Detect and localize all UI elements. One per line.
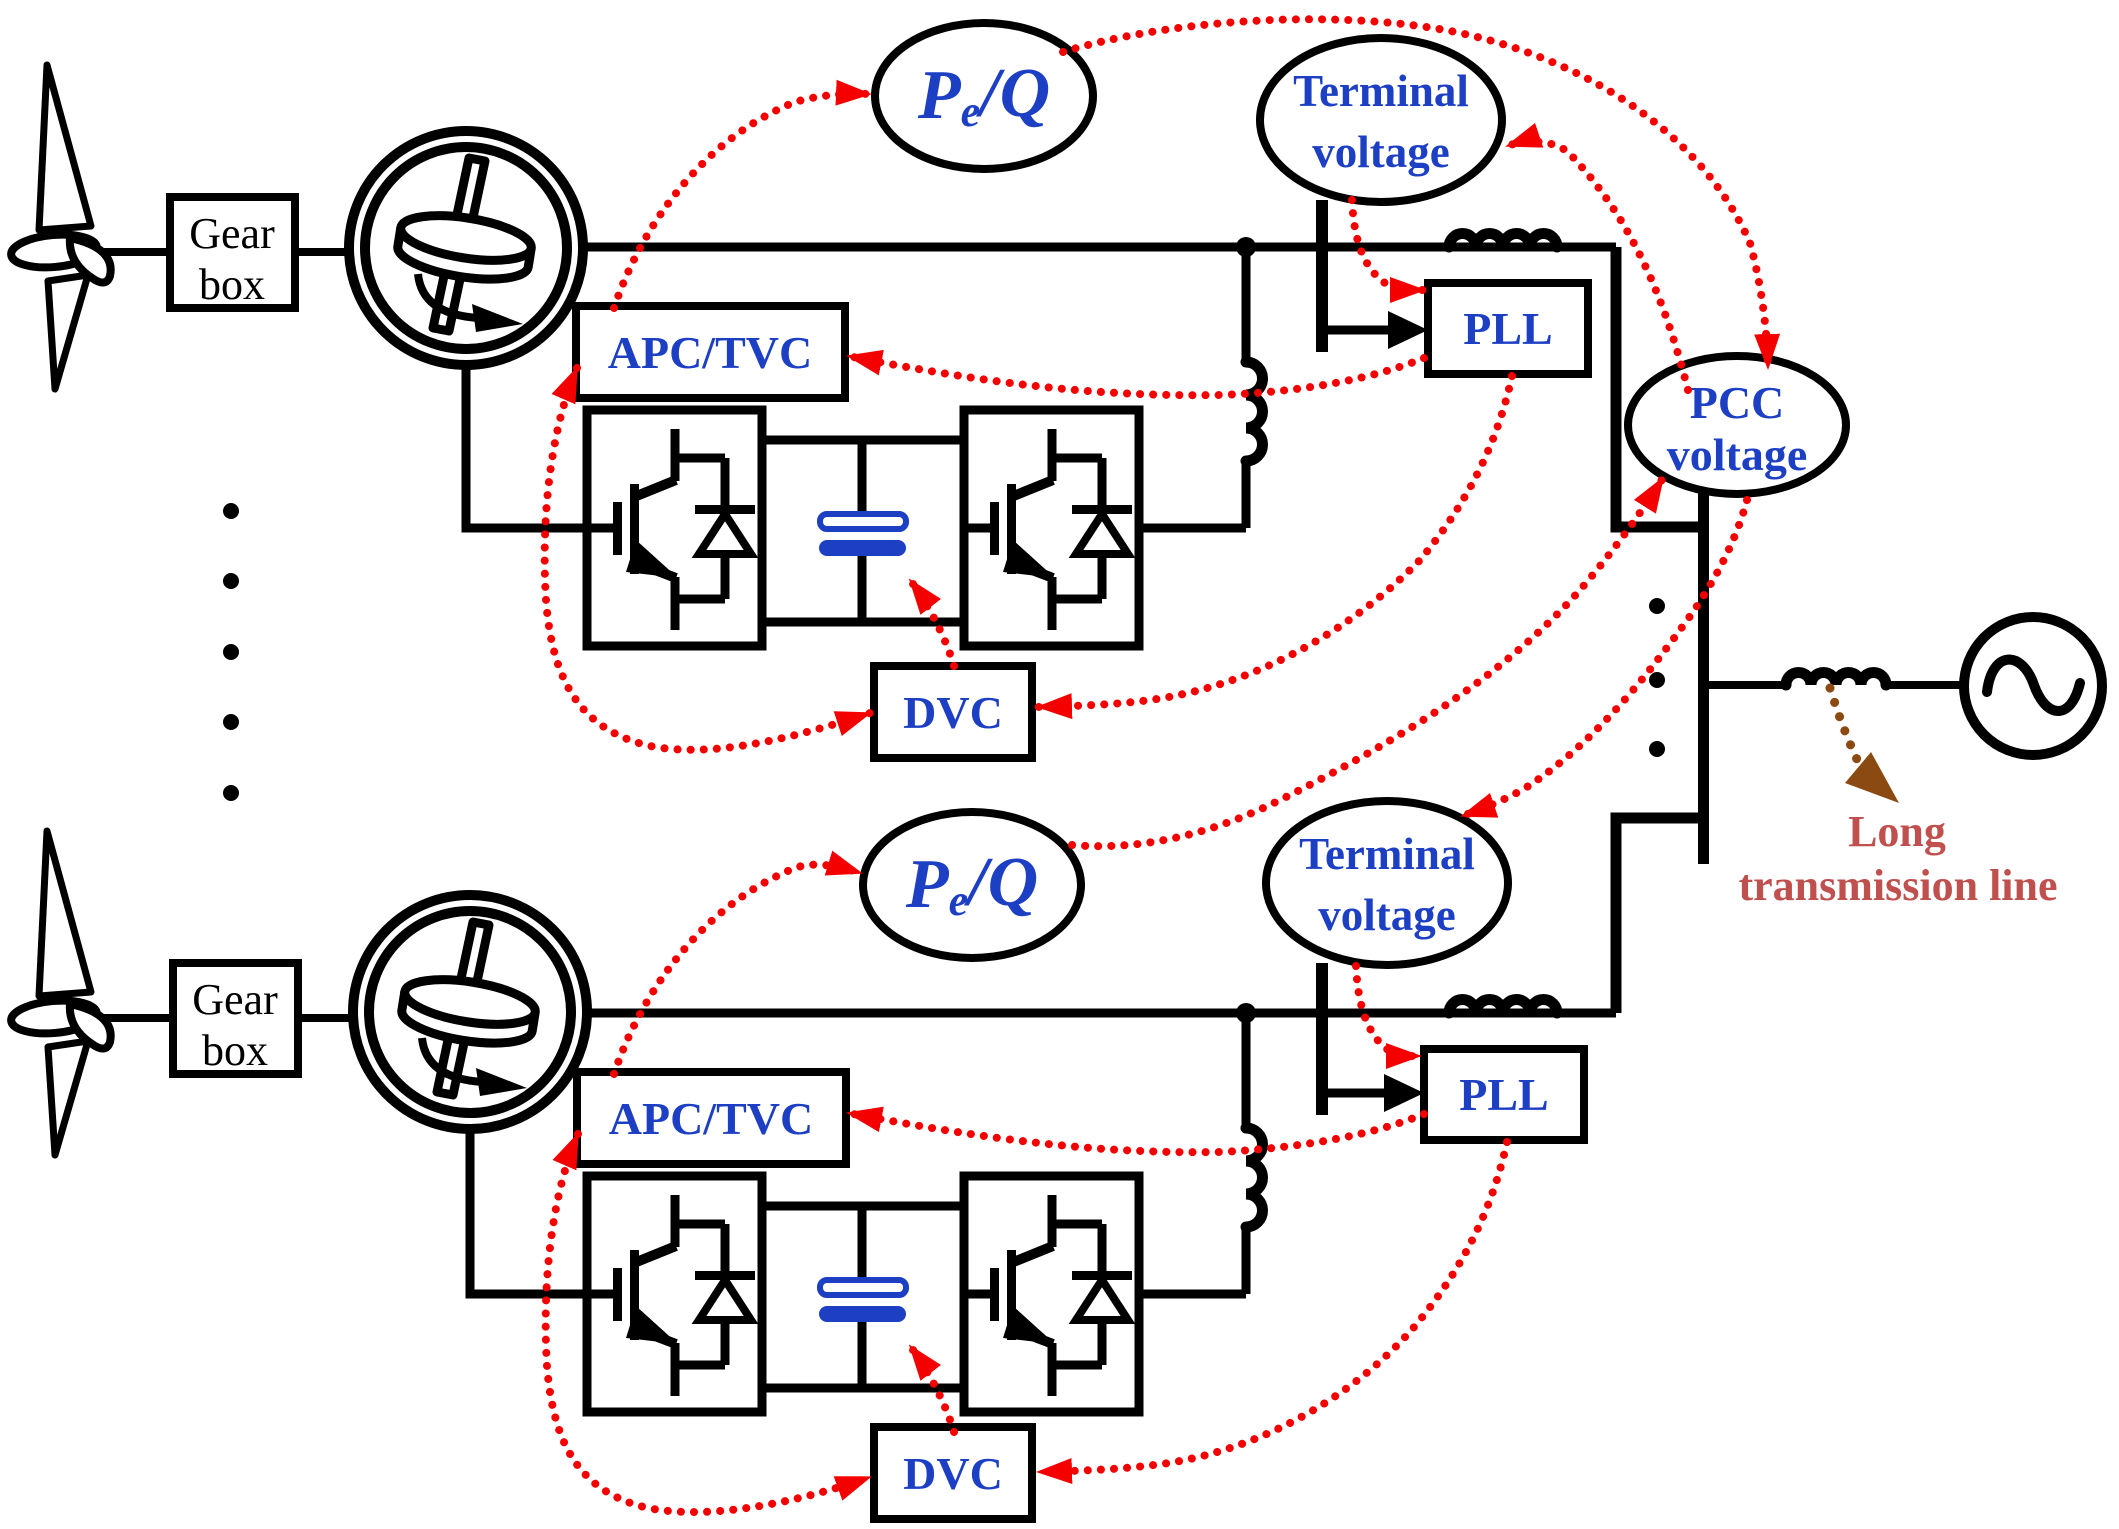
DC link top rail (bottom) [762,1202,964,1211]
generator bottom disc [399,972,539,1051]
Pe/Q ellipse (top) [875,23,1093,169]
IGBT grid-side bottom collector-diode top jog [1052,1220,1102,1229]
probe arm to PLL (top) [1322,326,1392,335]
IGBT machine-side bottom emitter lead [671,1343,680,1396]
grid voltage source [1964,617,2102,755]
svg-text:transmission line: transmission line [1738,861,2057,910]
wire turbine shaft to gear box (bottom) [88,1014,170,1022]
svg-text:DVC: DVC [903,1448,1003,1499]
APC/TVC box (top) [576,306,845,398]
diode machine-side bottom triangle [699,1280,751,1320]
diode grid-side top cathode branch [1098,458,1107,509]
DC link capacitor bottom plate (top) [819,540,906,556]
diode grid-side top cathode bar [1072,505,1132,514]
diode machine-side top cathode branch [721,458,730,509]
svg-text:Long: Long [1848,807,1946,856]
IGBT grid-side top collector-diode top jog [1052,454,1102,463]
svg-text:Gear: Gear [192,975,278,1024]
wind turbine top upper blade [39,65,91,230]
IGBT machine-side bottom emitter arrowhead [626,1306,678,1344]
IGBT grid-side top gate lead [964,524,993,533]
wire PCC bus to grid inductor [1706,681,1786,689]
signal arrow Terminal voltage to PLL (top) [1352,200,1424,290]
Terminal voltage ellipse (top) [1260,38,1502,202]
inductor Ls stator (top) [1449,234,1557,247]
converter box machine-side top [587,410,762,646]
wire grid corner to PCC bus (top) [1616,247,1698,527]
signal arrow Terminal voltage to PLL (bottom) [1356,966,1420,1056]
signal arrow DVC/APC feedback loop (top) [545,368,870,750]
wind turbine bottom upper blade [39,831,91,996]
terminal voltage probe bar (top) [1316,200,1328,352]
generator bottom outer circle [353,895,587,1129]
svg-text:Gear: Gear [189,209,275,258]
IGBT machine-side top body bar [630,484,639,574]
IGBT machine-side top emitter-diode bottom jog [675,595,725,604]
wind turbine bottom hub ring [10,997,98,1036]
signal arrow PCC voltage to Terminal voltage (bottom) [1462,500,1747,816]
wind turbine top lower blade [48,275,88,389]
DC link capacitor top plate (bottom) [820,1280,906,1295]
wire grid corner to PCC bus (bottom) [1616,818,1698,1013]
IGBT machine-side top gate lead [587,524,616,533]
IGBT grid-side bottom gate bar [990,1268,999,1321]
svg-text:DVC: DVC [903,687,1003,738]
generator top inner circle [365,147,567,349]
IGBT grid-side bottom emitter-diode bottom jog [1052,1361,1102,1370]
IGBT machine-side top emitter diagonal [634,562,676,578]
black arrow into PLL (bottom) [1384,1074,1424,1112]
diode grid-side top anode branch [1098,554,1107,599]
IGBT machine-side bottom collector diagonal [634,1246,676,1263]
IGBT grid-side top emitter lead [1048,577,1057,630]
signal arrow PLL to APC/TVC (bottom) [848,1113,1424,1152]
DC link bottom rail (top) [762,618,964,627]
diode machine-side top cathode bar [695,505,755,514]
signal arrow PLL to DVC (top) [1038,376,1512,707]
IGBT machine-side bottom emitter-diode bottom jog [675,1361,725,1370]
DC link capacitor top plate (top) [820,514,906,529]
diode grid-side bottom cathode branch [1098,1224,1107,1275]
wire grid inductor to grid source [1886,681,1966,689]
IGBT grid-side bottom emitter diagonal [1011,1328,1053,1344]
generator top outer circle [349,131,583,365]
PLL box (bottom) [1424,1049,1584,1140]
svg-text:voltage: voltage [1312,127,1449,177]
svg-text:APC/TVC: APC/TVC [609,1093,813,1144]
terminal voltage probe bar (bottom) [1316,963,1328,1115]
signal arrow DVC/APC feedback loop (bottom) [546,1134,870,1512]
rotor-side vertical wire at junction (top) [1242,247,1251,362]
DC link capacitor stub bottom (bottom) [858,1322,867,1388]
signal arrow PCC voltage to Terminal voltage (top) [1507,142,1688,390]
IGBT machine-side bottom gate bar [613,1268,622,1321]
grid-side converter output wire (bottom) [1139,1290,1246,1299]
svg-text:Pe/Q: Pe/Q [917,55,1050,136]
IGBT machine-side bottom gate lead [587,1290,616,1299]
stator wire generator to grid corner (top) [583,243,1616,252]
DC link capacitor stub top (top) [858,440,867,514]
rotor wire generator bottom to machine-side converter (top) [466,360,587,528]
IGBT grid-side top emitter-diode bottom jog [1052,595,1102,604]
wind turbine top nose blade [70,238,111,283]
signal arrow APC/TVC to Pe/Q (bottom) [614,865,861,1074]
Terminal voltage ellipse (bottom) [1266,801,1508,965]
signal arrow PLL to DVC (bottom) [1038,1142,1507,1472]
IGBT machine-side bottom emitter diagonal [634,1328,676,1344]
inductor Ls stator (bottom) [1449,1000,1557,1013]
converter box machine-side bottom [587,1176,762,1412]
svg-text:voltage: voltage [1318,890,1455,940]
inductor Lf vertical (bottom) [1246,1128,1263,1227]
IGBT grid-side bottom collector lead [1048,1195,1057,1247]
Pe/Q ellipse (bottom) [863,812,1081,958]
svg-text:voltage: voltage [1667,429,1808,480]
svg-text:PLL: PLL [1463,303,1552,354]
IGBT grid-side bottom body bar [1007,1250,1016,1340]
IGBT machine-side top emitter arrowhead [626,540,678,578]
IGBT machine-side top collector-diode top jog [675,454,725,463]
long transmission line pointer arrow [1830,688,1861,768]
APC/TVC box (bottom) [577,1072,846,1164]
DC link bottom rail (bottom) [762,1384,964,1393]
wire below vertical inductor (top) [1242,461,1251,528]
diode machine-side bottom anode branch [721,1320,730,1365]
gear box top [170,197,295,308]
svg-text:PCC: PCC [1690,377,1785,428]
svg-text:box: box [202,1026,268,1075]
diode grid-side bottom anode branch [1098,1320,1107,1365]
generator top rotor shaft [433,158,485,331]
generator top rotation arrow [418,274,478,318]
PCC voltage ellipse [1628,356,1846,494]
wire gear box to generator (bottom) [298,1014,360,1022]
svg-text:Terminal: Terminal [1293,66,1469,116]
IGBT machine-side bottom collector-diode top jog [675,1220,725,1229]
DVC box (bottom) [874,1427,1032,1519]
diode machine-side top triangle [699,514,751,554]
IGBT machine-side top gate bar [613,502,622,555]
IGBT grid-side bottom gate lead [964,1290,993,1299]
IGBT machine-side top emitter lead [671,577,680,630]
signal arrow APC/TVC to Pe/Q (top) [614,94,870,308]
grid-side converter output wire (top) [1139,524,1246,533]
wind turbine bottom lower blade [48,1041,88,1155]
black arrow into PLL (top) [1388,311,1428,349]
IGBT grid-side top body bar [1007,484,1016,574]
generator bottom inner circle [369,911,571,1113]
gear box bottom [173,963,298,1074]
DC link capacitor stub bottom (top) [858,556,867,622]
IGBT grid-side bottom emitter arrowhead [1003,1306,1055,1344]
IGBT grid-side bottom collector diagonal [1011,1246,1053,1263]
vertical ellipsis between units [223,503,239,519]
junction dot stator/rotor (top) [1236,237,1256,257]
svg-text:Terminal: Terminal [1299,829,1475,879]
IGBT machine-side bottom collector lead [671,1195,680,1247]
IGBT machine-side top collector diagonal [634,480,676,497]
IGBT grid-side top collector lead [1048,429,1057,481]
junction dot stator/rotor (bottom) [1236,1003,1256,1023]
signal arrow DVC to DC capacitor (bottom) [910,1346,954,1432]
PCC bus bar [1698,490,1709,864]
inductor Lg (long transmission line) [1786,673,1886,686]
diode machine-side bottom cathode branch [721,1224,730,1275]
stator wire generator to grid corner (bottom) [587,1009,1616,1018]
probe arm to PLL (bottom) [1322,1089,1388,1098]
rotor wire generator bottom to machine-side converter (bottom) [470,1124,587,1294]
vertical ellipsis dots left of PCC bus [1649,598,1665,614]
IGBT grid-side top gate bar [990,502,999,555]
IGBT machine-side top collector lead [671,429,680,481]
converter box grid-side bottom [964,1176,1139,1412]
svg-text:Pe/Q: Pe/Q [905,844,1038,925]
diode grid-side top triangle [1076,514,1128,554]
IGBT grid-side top emitter arrowhead [1003,540,1055,578]
svg-text:PLL: PLL [1459,1069,1548,1120]
IGBT grid-side bottom emitter lead [1048,1343,1057,1396]
rotor-side vertical wire at junction (bottom) [1242,1013,1251,1128]
wire gear box to generator (top) [295,248,356,256]
IGBT machine-side bottom body bar [630,1250,639,1340]
signal arrow Pe/Q to PCC voltage (bottom) [1072,478,1663,846]
IGBT grid-side top emitter diagonal [1011,562,1053,578]
DC link capacitor bottom plate (bottom) [819,1306,906,1322]
diode grid-side bottom cathode bar [1072,1271,1132,1280]
generator bottom rotor shaft [437,922,489,1095]
PLL box (top) [1428,283,1588,374]
svg-text:APC/TVC: APC/TVC [608,327,812,378]
wind turbine bottom nose blade [70,1004,111,1049]
converter box grid-side top [964,410,1139,646]
DC link top rail (top) [762,436,964,445]
DC link capacitor stub top (bottom) [858,1206,867,1280]
diode machine-side top anode branch [721,554,730,599]
IGBT grid-side top collector diagonal [1011,480,1053,497]
diode grid-side bottom triangle [1076,1280,1128,1320]
signal arrow DVC to DC capacitor (top) [910,580,954,666]
generator top disc [395,208,535,287]
diode machine-side bottom cathode bar [695,1271,755,1280]
inductor Lf vertical (top) [1246,362,1263,461]
wire below vertical inductor (bottom) [1242,1227,1251,1294]
wind turbine top hub ring [10,231,98,270]
svg-text:box: box [199,260,265,309]
signal arrow PLL to APC/TVC (top) [848,356,1424,395]
generator bottom rotation arrow [422,1038,482,1082]
DVC box (top) [874,666,1032,758]
wire turbine shaft to gear box (top) [88,248,170,256]
signal arrow Pe/Q to PCC voltage (top) [1063,19,1768,368]
